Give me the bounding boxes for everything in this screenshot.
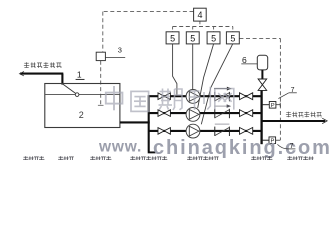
- pipe: outlet to users: [262, 120, 326, 122]
- valve suction row 1: [158, 93, 164, 100]
- svg-text:chinaqking.com: chinaqking.com: [153, 137, 331, 159]
- text: from supply network: [24, 62, 62, 68]
- valve suction row 3: [158, 128, 164, 135]
- pipe: tank 6 stem: [261, 70, 263, 79]
- VFD box 5 #2: [186, 32, 199, 44]
- svg-text:1: 1: [77, 70, 82, 80]
- pump P3: [186, 124, 200, 138]
- pipe: suction manifold drain elbow: [148, 151, 156, 153]
- VFD box 5 #3: [207, 32, 220, 44]
- valve discharge row 3: [240, 128, 247, 135]
- valve discharge row 2: [240, 110, 247, 117]
- valve discharge row 1: [240, 93, 247, 100]
- pipe: inlet from city water main: [20, 73, 63, 75]
- label 7 lower: [277, 144, 287, 149]
- wire dashed: VFD bus: [173, 26, 233, 28]
- pump P1: [186, 90, 200, 104]
- svg-text:2: 2: [79, 110, 84, 120]
- level switch 3: [96, 52, 105, 60]
- float valve 1: [63, 84, 75, 93]
- arrow: flow row 3: [215, 123, 230, 125]
- pressure tank 6: [257, 55, 267, 70]
- watermark: zhongguo qikan wang: [106, 86, 234, 111]
- water level line: [45, 94, 120, 96]
- arrow: outlet flow: [322, 118, 327, 123]
- wire: VFD1 to pipe: [173, 44, 177, 96]
- tank 2: water reservoir: [45, 84, 120, 128]
- wire: VFD3 to pump P2: [198, 44, 214, 108]
- svg-text:4: 4: [197, 10, 202, 20]
- wire: VFD2 to pump P1: [192, 44, 194, 89]
- label 7 upper: [278, 93, 288, 99]
- VFD box 5 #1: [166, 32, 179, 44]
- svg-text:5: 5: [170, 33, 175, 43]
- pipe: discharge manifold: [260, 91, 262, 145]
- pump P2: [186, 108, 200, 122]
- label 3: [105, 57, 125, 59]
- gauge P lower 7: [262, 139, 269, 141]
- arrow: flow row 1: [214, 88, 228, 90]
- svg-text:5: 5: [190, 33, 195, 43]
- svg-text:3: 3: [118, 46, 122, 55]
- check valve row 1: [214, 92, 216, 101]
- valve suction row 2: [158, 110, 164, 117]
- svg-text:5: 5: [230, 33, 235, 43]
- wire dashed: controller 4 to VFD bus: [199, 21, 201, 26]
- valve: below tank 6 (vertical): [258, 79, 267, 85]
- check valve row 2: [214, 109, 216, 118]
- svg-text:P: P: [271, 103, 275, 109]
- svg-text:7: 7: [291, 87, 295, 94]
- VFD box 5 #4: [226, 32, 239, 44]
- svg-text:www.: www.: [98, 138, 142, 155]
- pipe: branch row 1: [149, 95, 262, 97]
- svg-text:7: 7: [290, 143, 294, 150]
- pipe: branch row 2: [149, 112, 262, 114]
- arrow: inlet flow (points left): [20, 72, 25, 76]
- wire dashed: controller to level switch: [103, 11, 194, 13]
- text: to user network: [286, 112, 322, 118]
- pipe: branch row 3: [149, 130, 262, 132]
- controller box 4: [194, 8, 207, 21]
- wire dashed: level sensor drop into tank: [100, 61, 102, 105]
- caption: tiny bottom text: [23, 156, 44, 162]
- wire: VFD4 to pump P3: [201, 44, 232, 124]
- pipe: tank outlet suction header: [120, 121, 150, 123]
- svg-text:5: 5: [211, 33, 216, 43]
- pipe: suction manifold: [148, 95, 150, 151]
- arrow: flow row 2: [214, 105, 228, 107]
- wire dashed: bus to pressure sensors: [239, 37, 280, 39]
- gauge P upper 7: [262, 104, 270, 106]
- check valve row 3: [214, 127, 216, 136]
